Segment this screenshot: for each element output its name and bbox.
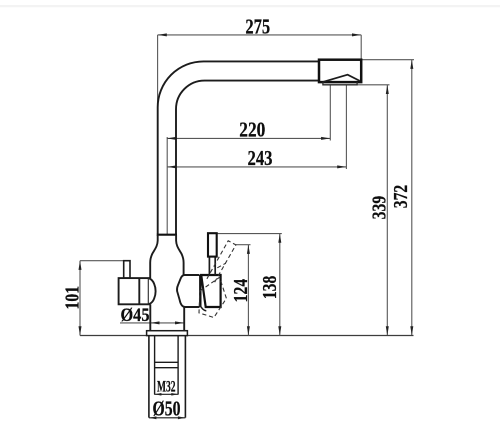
dimension D45 leader and line bbox=[120, 322, 184, 324]
body lower right wall bbox=[183, 307, 185, 331]
dimension 275 line bbox=[158, 35, 362, 105]
spout block diagonal bbox=[323, 75, 360, 82]
dimension 275 arrows bbox=[158, 33, 362, 36]
dimension 339 line bbox=[357, 85, 389, 336]
dimension 372 arrows bbox=[410, 60, 413, 336]
svg-text:372: 372 bbox=[390, 185, 412, 209]
aerator bbox=[323, 82, 357, 85]
left handle cap bbox=[149, 278, 156, 304]
shank bottom arrows bbox=[149, 416, 186, 419]
svg-text:Ø50: Ø50 bbox=[153, 397, 181, 421]
svg-text:275: 275 bbox=[245, 14, 270, 38]
right mount bbox=[177, 275, 200, 307]
svg-text:339: 339 bbox=[368, 196, 390, 220]
label M32 bbox=[157, 380, 177, 392]
left handle body bbox=[119, 278, 149, 304]
shank bottom line bbox=[149, 417, 186, 419]
flange bbox=[147, 331, 188, 336]
dimension D45 arrows bbox=[150, 321, 184, 324]
dimension 124 arrows bbox=[247, 245, 250, 336]
dimension 339 arrows bbox=[386, 85, 389, 336]
right lever bbox=[208, 233, 217, 256]
dimension 372 line bbox=[361, 60, 414, 336]
dashed lever bbox=[207, 241, 236, 283]
spout outer bend wire bbox=[158, 61, 319, 234]
svg-text:Ø45: Ø45 bbox=[121, 305, 150, 326]
svg-text:220: 220 bbox=[239, 117, 265, 141]
svg-text:243: 243 bbox=[248, 146, 273, 170]
left handle lever stub bbox=[124, 261, 130, 278]
spout inner bend wire bbox=[176, 81, 319, 234]
dimension 138 line bbox=[216, 234, 281, 336]
shank outer walls bbox=[149, 336, 186, 418]
right valve boundary bbox=[199, 275, 201, 307]
threaded rod walls bbox=[155, 336, 179, 394]
body left wall bbox=[150, 235, 158, 279]
rod joint lines bbox=[155, 362, 179, 367]
left handle divider bbox=[138, 278, 140, 304]
dimension 101 arrows bbox=[79, 261, 82, 336]
node centerline extension bbox=[166, 137, 168, 234]
rod bottom line bbox=[154, 393, 178, 395]
svg-text:101: 101 bbox=[61, 286, 83, 310]
dimension 220 arrows bbox=[167, 137, 330, 140]
dimension 138 arrows bbox=[278, 234, 281, 336]
dimension 124 line bbox=[236, 245, 251, 336]
svg-text:138: 138 bbox=[259, 276, 281, 300]
pipe joint line bbox=[157, 234, 177, 236]
right stem bbox=[209, 257, 215, 275]
rod bottom arrows bbox=[155, 393, 179, 396]
right valve fillet bbox=[200, 304, 207, 311]
dashed lever joint bbox=[217, 263, 226, 268]
dimension 220 line bbox=[167, 85, 330, 141]
baseline counter line bbox=[80, 335, 414, 337]
body right wall bbox=[176, 235, 184, 276]
dimension 243 line bbox=[167, 85, 346, 169]
svg-text:M32: M32 bbox=[157, 378, 176, 395]
spout block bbox=[319, 60, 361, 82]
svg-text:124: 124 bbox=[230, 279, 252, 303]
right valve body bbox=[201, 275, 220, 307]
dimension 101 line bbox=[80, 261, 125, 336]
dashed valve bbox=[199, 277, 226, 317]
body lower left wall bbox=[149, 304, 151, 330]
dimension 243 arrows bbox=[167, 165, 346, 168]
